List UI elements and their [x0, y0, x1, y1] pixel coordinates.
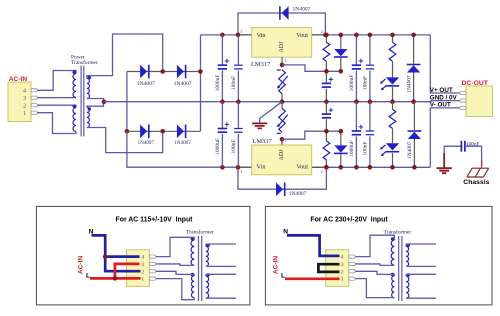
svg-text:Transformer: Transformer	[71, 59, 98, 66]
svg-text:1000uF: 1000uF	[349, 75, 355, 92]
svg-text:1N4007: 1N4007	[406, 75, 412, 93]
svg-text:4: 4	[341, 255, 344, 261]
svg-text:2: 2	[321, 170, 323, 174]
svg-text:V- OUT: V- OUT	[430, 102, 451, 109]
svg-text:2: 2	[341, 269, 344, 275]
svg-text:Chassis: Chassis	[463, 179, 489, 186]
svg-text:ADJ: ADJ	[279, 41, 285, 53]
svg-text:1: 1	[23, 111, 26, 117]
svg-text:LM317: LM317	[251, 61, 271, 68]
svg-text:1: 1	[141, 277, 144, 283]
svg-text:3: 3	[240, 170, 242, 174]
svg-text:1N4007: 1N4007	[174, 81, 192, 87]
svg-text:3: 3	[341, 262, 344, 268]
svg-text:AC-IN: AC-IN	[273, 256, 280, 275]
svg-text:LM337: LM337	[253, 138, 273, 145]
svg-text:V+ OUT: V+ OUT	[430, 87, 453, 94]
svg-text:1000uF: 1000uF	[215, 75, 221, 92]
svg-text:For AC 115+/-10V Input: For AC 115+/-10V Input	[116, 217, 194, 224]
svg-text:1: 1	[285, 59, 287, 63]
svg-text:1N4007: 1N4007	[289, 191, 307, 197]
svg-text:1000uF: 1000uF	[215, 138, 221, 155]
svg-text:100nF: 100nF	[362, 76, 368, 90]
svg-text:Vout: Vout	[296, 32, 308, 39]
svg-text:Vout: Vout	[296, 163, 308, 170]
svg-text:1N4007: 1N4007	[138, 140, 155, 146]
svg-text:2: 2	[23, 103, 26, 109]
svg-text:2: 2	[321, 30, 323, 34]
svg-text:AC-IN: AC-IN	[78, 256, 85, 275]
svg-text:1000uF: 1000uF	[349, 140, 355, 157]
svg-text:2: 2	[141, 269, 144, 275]
svg-text:Vin: Vin	[257, 163, 266, 170]
svg-text:100nF: 100nF	[362, 141, 368, 155]
svg-text:Vin: Vin	[257, 32, 266, 39]
svg-text:1N4007: 1N4007	[293, 7, 311, 13]
svg-text:100nF: 100nF	[231, 76, 237, 90]
svg-text:3: 3	[23, 96, 26, 102]
svg-text:1N4007: 1N4007	[137, 81, 155, 87]
svg-text:3: 3	[141, 262, 144, 268]
svg-text:For AC 230+/-20V Input: For AC 230+/-20V Input	[310, 217, 388, 224]
svg-text:AC-IN: AC-IN	[9, 76, 28, 83]
svg-text:4: 4	[141, 255, 144, 261]
svg-text:Transformer: Transformer	[186, 229, 214, 236]
svg-text:3: 3	[240, 30, 242, 34]
svg-text:1N4007: 1N4007	[174, 140, 191, 146]
svg-text:4: 4	[23, 88, 26, 94]
svg-text:1: 1	[341, 277, 344, 283]
svg-text:100nF: 100nF	[231, 139, 237, 153]
svg-text:L: L	[281, 273, 285, 280]
svg-text:ADJ: ADJ	[279, 149, 285, 161]
svg-text:L: L	[86, 273, 90, 280]
svg-text:Transformer: Transformer	[384, 229, 412, 236]
svg-text:GND / 0V: GND / 0V	[430, 95, 458, 102]
svg-text:1N4007: 1N4007	[407, 141, 413, 159]
